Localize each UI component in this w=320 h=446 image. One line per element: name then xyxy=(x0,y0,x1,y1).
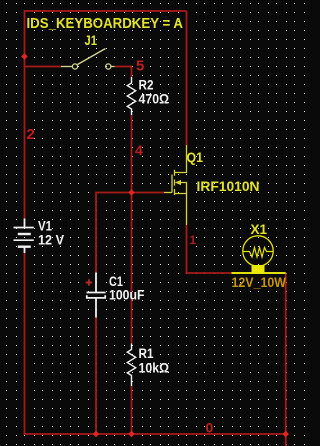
svg-text:1: 1 xyxy=(190,233,197,247)
svg-text:100uF: 100uF xyxy=(109,288,145,303)
bottom channel bar xyxy=(174,189,176,195)
svg-text:R2: R2 xyxy=(139,78,154,93)
svg-text:IRF1010N: IRF1010N xyxy=(197,178,260,194)
wire right vertical to drain xyxy=(186,11,188,145)
wire bottom ground rail xyxy=(24,433,286,435)
filament xyxy=(244,248,273,258)
svg-text:V1: V1 xyxy=(38,219,52,234)
mosfet body arrow xyxy=(175,180,181,185)
svg-text:IDS_KEYBOARDKEY = A: IDS_KEYBOARDKEY = A xyxy=(27,15,184,32)
lamp X1 xyxy=(232,236,286,273)
junction C1-ground xyxy=(93,431,100,438)
wire left vertical rail lower xyxy=(24,253,26,434)
svg-text:12V_10W: 12V_10W xyxy=(232,275,287,290)
junction left rail xyxy=(21,53,28,60)
svg-text:12 V: 12 V xyxy=(38,233,64,248)
lamp base block xyxy=(252,265,265,274)
svg-text:5: 5 xyxy=(136,58,144,75)
wire left vertical rail upper xyxy=(24,10,26,219)
svg-text:Q1: Q1 xyxy=(187,149,204,165)
top channel bar xyxy=(174,170,176,176)
wire node 4 branch to C1 xyxy=(96,193,132,273)
baseline terminal bar xyxy=(232,272,286,274)
wire top horizontal rail xyxy=(25,10,187,12)
svg-text:10kΩ: 10kΩ xyxy=(139,361,170,376)
capacitor C1 xyxy=(87,273,106,318)
middle channel bar xyxy=(174,180,176,186)
gate lead yellow xyxy=(164,192,172,194)
wire gate red segment xyxy=(132,192,165,194)
svg-text:470Ω: 470Ω xyxy=(139,92,170,107)
wire switch input xyxy=(25,66,62,68)
resistor R1 xyxy=(127,344,135,387)
svg-text:J1: J1 xyxy=(85,32,98,48)
gate bar xyxy=(171,175,173,193)
wire source to lamp xyxy=(187,225,232,273)
svg-text:X1: X1 xyxy=(251,221,268,237)
battery V1 xyxy=(14,219,34,254)
middle stub and source join xyxy=(175,183,187,194)
wire R1 bottom to ground rail xyxy=(131,386,133,434)
svg-text:2: 2 xyxy=(27,126,35,143)
mosfet Q1 xyxy=(164,145,187,225)
wire node 4 to R1 top xyxy=(131,193,133,344)
svg-text:0: 0 xyxy=(206,420,214,436)
svg-text:R1: R1 xyxy=(139,346,154,361)
resistor R2 xyxy=(127,77,135,115)
svg-text:4: 4 xyxy=(135,142,143,158)
wire lamp right to bottom edge xyxy=(285,273,287,446)
drain lead xyxy=(175,145,187,173)
wire switch output to R2 top xyxy=(115,67,132,78)
wire C1 bottom to ground rail xyxy=(95,318,97,435)
wire R2 bottom to node 4 junction xyxy=(131,115,133,193)
junction node 4 xyxy=(128,189,135,196)
source lead xyxy=(186,194,188,226)
capacitor plus sign xyxy=(86,279,92,285)
junction R1-ground xyxy=(128,431,135,438)
switch J1 xyxy=(61,49,115,70)
junction lamp-ground rail xyxy=(282,431,289,438)
